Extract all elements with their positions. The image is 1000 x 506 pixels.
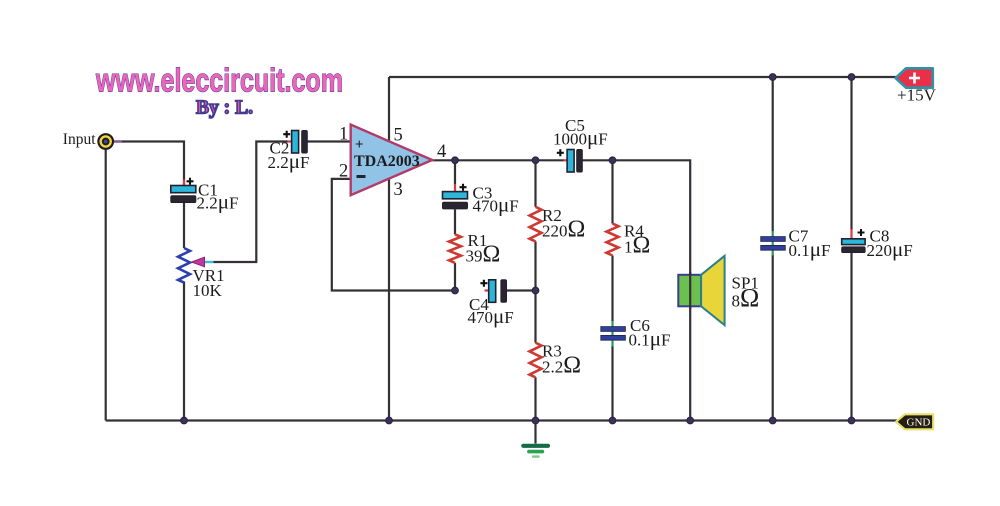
node VR1 ground junction xyxy=(181,417,188,424)
label R1 value xyxy=(466,231,501,268)
label R2 value xyxy=(542,206,585,243)
wire C8 branch top xyxy=(850,77,852,230)
wire C3 to R1 xyxy=(454,209,456,234)
wire over speaker magnet xyxy=(689,272,691,309)
wire input jack down to ground rail xyxy=(105,149,107,421)
ground symbol xyxy=(523,446,548,457)
label C5 value xyxy=(553,116,608,150)
wire C7 branch bottom xyxy=(772,255,774,421)
svg-text:TDA2003: TDA2003 xyxy=(354,153,420,170)
pin 1 xyxy=(339,125,348,145)
wire C1 to VR1 xyxy=(183,203,185,249)
wire ground symbol stub xyxy=(534,421,536,444)
svg-text:1000μF: 1000μF xyxy=(553,126,608,150)
node R1/C4 feedback junction xyxy=(452,287,459,294)
svg-text:Input: Input xyxy=(63,131,96,148)
wire pin 4 output xyxy=(432,159,563,161)
label C2 value xyxy=(268,139,310,174)
capacitor C8 (220uF polarized) xyxy=(842,229,865,253)
svg-text:0.1μF: 0.1μF xyxy=(629,327,671,351)
wire pin 2 feedback down xyxy=(332,179,458,291)
title By : L. xyxy=(196,98,253,119)
capacitor C4 (470uF polarized) xyxy=(480,280,506,303)
label VR1 value xyxy=(193,266,225,300)
label R3 value xyxy=(542,342,581,379)
speaker SP1 (8 ohm) xyxy=(678,256,724,325)
resistor R3 (2.2 ohm) xyxy=(530,343,542,378)
svg-text:5: 5 xyxy=(394,126,403,146)
node pin3 ground junction xyxy=(386,417,393,424)
label C4 value xyxy=(468,295,514,328)
node C7 top rail junction xyxy=(769,74,776,81)
wire R2 top xyxy=(534,160,536,207)
svg-text:220μF: 220μF xyxy=(867,237,913,261)
node R2 top junction xyxy=(532,157,539,164)
terminal GND xyxy=(896,414,933,429)
resistor R1 (39 ohm) xyxy=(449,234,461,263)
svg-text:470μF: 470μF xyxy=(468,304,514,328)
label SP1 value xyxy=(732,274,760,313)
label C7 value xyxy=(789,227,831,262)
capacitor C6 (0.1uF) xyxy=(601,321,626,347)
label C8 value xyxy=(867,227,913,262)
wire R4 to C6 xyxy=(611,256,613,322)
svg-text:3: 3 xyxy=(394,180,403,200)
pin 3 xyxy=(394,180,403,200)
svg-text:2: 2 xyxy=(339,162,348,182)
svg-text:+15V: +15V xyxy=(897,86,937,105)
node C4/R2/R3 junction xyxy=(532,287,539,294)
wire R4 top xyxy=(611,160,613,223)
potentiometer VR1 (10K) xyxy=(178,248,214,282)
svg-text:GND: GND xyxy=(907,417,931,429)
capacitor C1 (2.2uF polarized) xyxy=(171,178,196,203)
wire C5 to speaker branch xyxy=(582,160,690,420)
svg-text:470μF: 470μF xyxy=(473,193,519,217)
label C6 value xyxy=(629,316,671,351)
capacitor C3 (470uF polarized) xyxy=(443,184,468,209)
label Input xyxy=(63,131,96,148)
title www.eleccircuit.com xyxy=(95,62,343,99)
svg-text:2.2μF: 2.2μF xyxy=(268,149,310,173)
node C8 top rail junction xyxy=(848,74,855,81)
label +15V xyxy=(897,86,937,105)
capacitor C2 (2.2uF polarized) xyxy=(283,131,307,154)
pin 2 xyxy=(339,162,348,182)
node R4 top junction xyxy=(609,157,616,164)
node output pin4 / C3 junction xyxy=(452,157,459,164)
label R4 value xyxy=(624,222,650,259)
resistor R4 (1 ohm) xyxy=(607,224,619,256)
wire C2 to pin 1 xyxy=(307,140,351,142)
node C8 ground junction xyxy=(848,417,855,424)
wire C8 branch bottom xyxy=(850,252,852,420)
label C1 value xyxy=(197,181,239,214)
pin 4 xyxy=(437,142,446,162)
capacitor C5 (1000uF polarized) xyxy=(557,149,583,172)
svg-text:0.1μF: 0.1μF xyxy=(789,237,831,261)
wire R1 bottom to node xyxy=(454,263,456,291)
wire C7 branch top xyxy=(772,77,774,231)
wire input jack to C1 corner xyxy=(113,142,184,187)
wire pin5-pin3 vertical line xyxy=(388,77,390,421)
wire VR1 bottom to ground rail xyxy=(183,282,185,421)
resistor R2 (220 ohm) xyxy=(530,207,542,242)
svg-text:+: + xyxy=(355,137,364,153)
svg-text:2.2μF: 2.2μF xyxy=(197,190,239,214)
wire top supply rail xyxy=(389,76,897,78)
wire R2 bottom to node X xyxy=(534,241,536,290)
svg-text:www.eleccircuit.com: www.eleccircuit.com xyxy=(95,62,343,99)
wire C4 right to node X xyxy=(507,289,536,291)
terminal +15V xyxy=(896,68,933,87)
node C6 ground junction xyxy=(609,417,616,424)
svg-text:1: 1 xyxy=(339,125,348,145)
wire VR1 wiper to C2 xyxy=(214,142,289,263)
pin 5 xyxy=(394,126,403,146)
wire C6 to ground rail xyxy=(611,346,613,421)
input jack J1 xyxy=(98,134,122,149)
wire node X to R3 xyxy=(534,291,536,343)
wire output node down to C3 xyxy=(454,160,456,184)
op-amp U1 TDA2003 xyxy=(351,125,433,196)
node C7 ground junction xyxy=(769,417,776,424)
label C3 value xyxy=(473,184,519,217)
svg-text:10K: 10K xyxy=(193,281,223,300)
svg-text:By : L.: By : L. xyxy=(196,98,253,119)
capacitor C7 (0.1uF) xyxy=(761,231,786,256)
wire R3 bottom to ground rail xyxy=(534,377,536,420)
wire bottom ground rail xyxy=(106,419,897,421)
node R3/ground-symbol junction xyxy=(532,417,539,424)
node speaker ground junction xyxy=(687,417,694,424)
svg-text:4: 4 xyxy=(437,142,446,162)
